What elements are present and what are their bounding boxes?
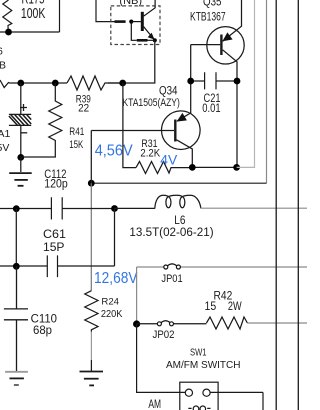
jumper JP02 xyxy=(157,321,173,326)
wire gray bus 1 xyxy=(237,0,255,167)
resistor R31 xyxy=(136,162,192,174)
node dot 4V bus xyxy=(233,164,240,171)
wire L6 branch down xyxy=(114,209,116,267)
wire box edge around R175 xyxy=(0,0,60,32)
jumper JP01 xyxy=(164,264,181,269)
node dot QNB base xyxy=(129,20,133,24)
capacitor C61 xyxy=(47,255,57,277)
node dot QNB emitter xyxy=(153,38,157,42)
node dot ground1 xyxy=(17,154,24,161)
ground 1 xyxy=(9,157,32,185)
wire JP01 corner down xyxy=(136,267,138,324)
transistor QNB xyxy=(131,0,155,38)
wire SW1 out right xyxy=(218,392,263,410)
svg-text:2W: 2W xyxy=(228,301,242,313)
wire base-emitter tie xyxy=(131,22,155,41)
wire left tail on main wire xyxy=(0,80,21,88)
emitter arrow QNB xyxy=(148,33,155,40)
thick segment in tie xyxy=(137,39,148,42)
ground 3 xyxy=(80,372,104,386)
node dot L6 branch xyxy=(111,205,118,212)
wire JP01 net xyxy=(137,266,307,268)
switch SW1 contacts xyxy=(185,389,210,396)
svg-text:2.2K: 2.2K xyxy=(140,148,160,160)
wire down to SW1 xyxy=(137,324,180,392)
resistor R24 xyxy=(85,291,98,332)
capacitor C21 xyxy=(191,72,237,89)
wire base node vertical xyxy=(90,131,92,184)
svg-text:0.01: 0.01 xyxy=(202,103,220,115)
node dot R31 top xyxy=(119,80,126,87)
node dot C110 join xyxy=(13,263,20,270)
ground 2 xyxy=(5,372,28,385)
wire R31 branch from y83 down xyxy=(123,83,136,168)
wire bus 4 xyxy=(297,0,299,410)
wire SW1 internal xyxy=(180,391,218,393)
svg-text:JP01: JP01 xyxy=(161,273,182,285)
resistor R39 xyxy=(67,76,123,90)
resistor R42 xyxy=(206,317,247,329)
battery A1 plus sign xyxy=(20,104,27,111)
transistor Q35 xyxy=(191,0,245,167)
svg-text:AM/FM SWITCH: AM/FM SWITCH xyxy=(166,360,241,371)
svg-text:15: 15 xyxy=(205,301,217,313)
emitter arrow Q35 xyxy=(222,32,232,41)
wire A1 leads xyxy=(20,83,22,157)
capacitor C110 xyxy=(4,266,28,371)
svg-text:13.5T(02-06-21): 13.5T(02-06-21) xyxy=(129,227,213,239)
svg-text:15K: 15K xyxy=(69,139,83,151)
svg-text:SW1: SW1 xyxy=(190,346,207,358)
wire L6 out right xyxy=(201,207,308,209)
svg-text:5V: 5V xyxy=(0,142,9,154)
switch SW1 lower contacts partial xyxy=(188,406,210,410)
resistor R41 xyxy=(21,83,62,157)
svg-text:120p: 120p xyxy=(44,177,68,191)
transistor Q34 xyxy=(91,45,200,168)
node dot A1 top xyxy=(17,80,24,87)
svg-text:100K: 100K xyxy=(21,5,46,22)
svg-text:B: B xyxy=(0,59,6,71)
switch SW1 box xyxy=(180,382,218,410)
svg-text:12,68V: 12,68V xyxy=(94,270,138,287)
svg-text:KTA1505(AZY): KTA1505(AZY) xyxy=(122,97,179,109)
wire horizontal to Q34 base node xyxy=(91,182,266,184)
battery A1 minus tick xyxy=(21,132,27,134)
wire bus 3 xyxy=(275,0,277,410)
node dot R175 bottom xyxy=(5,29,12,36)
svg-text:15P: 15P xyxy=(43,240,65,254)
dashed box (NB) xyxy=(111,6,160,45)
resistor R175 xyxy=(3,0,12,32)
wire C110 vertical link xyxy=(15,209,17,267)
svg-text:C61: C61 xyxy=(43,227,66,241)
node dot JP02 xyxy=(133,320,140,327)
svg-text:JP02: JP02 xyxy=(153,329,175,341)
node dot R41 top xyxy=(52,80,59,87)
battery A1 hatched plate xyxy=(9,114,31,125)
wire NB emitter down to main wire xyxy=(108,40,155,83)
svg-text:4,56V: 4,56V xyxy=(95,143,134,160)
wire 4V node xyxy=(192,166,236,168)
node dot C110 top xyxy=(13,205,20,212)
inductor L6 xyxy=(115,195,201,208)
svg-text:(NB): (NB) xyxy=(119,0,142,7)
svg-text:Q34: Q34 xyxy=(159,85,178,97)
wire R42 out xyxy=(247,322,307,324)
svg-text:KTB1367: KTB1367 xyxy=(190,11,226,23)
wire 12.68V net xyxy=(0,265,115,267)
svg-text:Q35: Q35 xyxy=(203,0,222,8)
node dot C21 left xyxy=(187,78,194,85)
svg-text:6: 6 xyxy=(0,45,3,57)
svg-text:A1: A1 xyxy=(0,128,11,140)
svg-text:22: 22 xyxy=(78,102,89,114)
node dot Q34 collector xyxy=(189,164,196,171)
svg-text:R24: R24 xyxy=(101,297,119,308)
wire gray bus 2 bend xyxy=(266,0,268,183)
svg-text:220K: 220K xyxy=(101,309,123,320)
node dot base node xyxy=(88,180,95,187)
wire main horizontal y83 xyxy=(21,82,67,84)
svg-text:4V: 4V xyxy=(160,152,177,167)
wire JP02 net xyxy=(137,323,207,325)
svg-text:R41: R41 xyxy=(69,126,84,138)
svg-text:L6: L6 xyxy=(174,215,185,227)
emitter arrow Q34 xyxy=(177,113,187,122)
transistor QNB thick base segment xyxy=(115,20,126,23)
wire C112 net xyxy=(0,208,115,210)
svg-text:68p: 68p xyxy=(33,323,52,337)
capacitor C112 xyxy=(51,197,62,219)
wire from top to NB box xyxy=(96,0,115,22)
wire R24 to ground xyxy=(90,332,92,360)
node dot C21 right xyxy=(234,78,241,85)
svg-text:AM: AM xyxy=(148,399,161,410)
